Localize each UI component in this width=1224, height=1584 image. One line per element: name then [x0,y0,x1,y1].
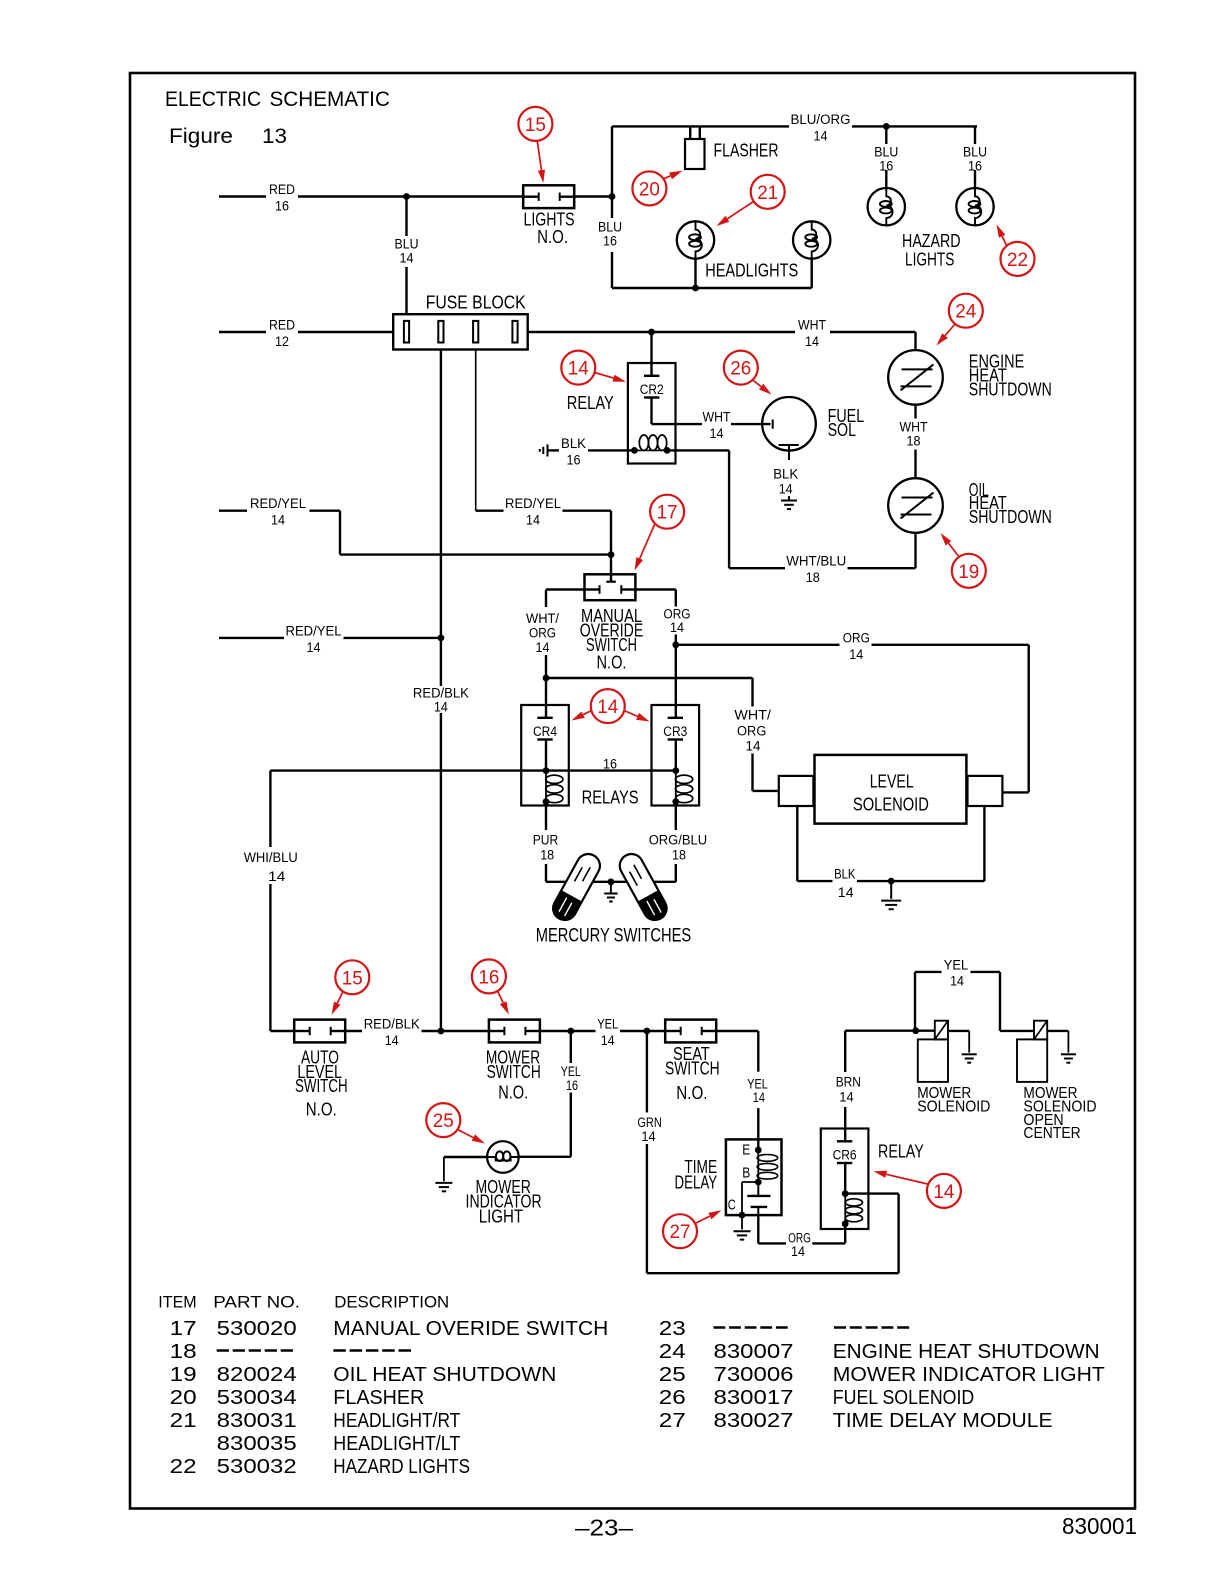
svg-text:BLU: BLU [874,145,898,160]
svg-text:WHT: WHT [703,410,731,425]
svg-text:14: 14 [849,647,863,662]
wire WHT 18 between shutdowns [900,405,928,479]
callout 27 time delay [663,1210,722,1248]
lamp hazard left [868,126,905,225]
callout 16 mower switch [472,959,509,1014]
svg-text:HEADLIGHT/LT: HEADLIGHT/LT [333,1432,460,1455]
svg-text:SWITCH: SWITCH [295,1076,348,1096]
svg-text:20: 20 [639,178,660,200]
svg-text:GRN: GRN [637,1115,662,1130]
svg-text:HEADLIGHTS: HEADLIGHTS [705,261,798,281]
svg-text:RELAY: RELAY [567,393,614,413]
svg-text:RED: RED [269,182,295,197]
switch LIGHTS N.O. [523,185,574,208]
svg-text:N.O.: N.O. [498,1082,528,1102]
svg-text:16: 16 [968,159,982,174]
svg-text:HAZARD LIGHTS: HAZARD LIGHTS [333,1455,470,1478]
wire BLK 16 to CR2 coil [548,436,635,468]
svg-text:15: 15 [342,967,363,989]
node junction CR4 row16 [543,740,550,774]
wire RED 12 row [219,318,393,350]
svg-text:830017: 830017 [714,1386,794,1409]
svg-text:830027: 830027 [714,1409,794,1432]
svg-text:BLU: BLU [598,220,622,235]
svg-text:BLU: BLU [963,145,987,160]
label HEADLIGHTS [705,261,798,281]
svg-text:14: 14 [597,696,618,718]
fuse 4 [512,321,517,343]
svg-text:CR2: CR2 [640,382,664,397]
svg-text:SOLENOID: SOLENOID [917,1099,990,1116]
wire PUR 18 to mercury switch [533,802,559,882]
label MANUAL OVERIDE SWITCH N.O. [580,606,644,673]
table row left 22 [170,1455,470,1478]
svg-text:RED/BLK: RED/BLK [413,686,469,701]
wire CR2 coil to WHT/BLU column [667,450,729,568]
fuse 2 [438,321,443,343]
wire WHT 14 row fuse to engine shutdown [528,318,916,350]
svg-text:FUSE BLOCK: FUSE BLOCK [426,293,526,313]
svg-text:B: B [742,1166,750,1182]
svg-text:16: 16 [603,756,617,771]
wire ORG 14 time delay to CR6 [758,1215,845,1259]
svg-text:22: 22 [170,1455,197,1478]
label HAZARD LIGHTS [902,231,961,270]
svg-text:OIL HEAT SHUTDOWN: OIL HEAT SHUTDOWN [333,1363,556,1386]
svg-text:–23–: –23– [575,1514,633,1540]
table row right 25 [659,1363,1105,1386]
svg-text:BLU/ORG: BLU/ORG [791,112,851,127]
wire RED/BLK 14 between switches [345,1017,489,1049]
wire YEL 14 seat switch to time delay [716,1031,768,1150]
callout 14 relay CR6 [874,1171,961,1208]
ground chassis left of CR2 [540,444,548,456]
capacitor time delay [747,1182,770,1215]
title ELECTRIC SCHEMATIC [165,88,390,111]
wire BLU 14 drop to fuse block [395,197,419,315]
node junction CR2 feed [648,329,655,336]
svg-text:CR4: CR4 [533,724,557,739]
ground level solenoid [881,881,901,909]
svg-text:14: 14 [779,481,793,496]
wire WHT/ORG 14 feed to level solenoid [546,678,779,791]
lamp hazard right [956,126,993,225]
svg-text:830001: 830001 [1062,1513,1137,1539]
coil CR6 [842,1163,863,1227]
svg-text:WHT/BLU: WHT/BLU [786,554,846,569]
engine heat shutdown sender [888,332,943,405]
mower solenoid valve [918,1021,977,1082]
svg-text:21: 21 [170,1409,197,1432]
wire ORG 14 switch to CR3 [635,590,690,719]
label RELAY CR2 [567,393,614,413]
svg-text:SOLENOID: SOLENOID [853,794,929,814]
terminal B [742,1166,761,1186]
svg-text:SWITCH: SWITCH [665,1059,720,1079]
svg-text:YEL: YEL [561,1064,581,1079]
svg-text:17: 17 [657,502,678,524]
label OIL HEAT SHUTDOWN [969,480,1052,527]
svg-text:MERCURY SWITCHES: MERCURY SWITCHES [536,926,692,947]
label MOWER SOLENOID [917,1085,990,1115]
parts table header [158,1293,449,1312]
svg-text:14: 14 [385,1033,399,1048]
coil time delay [757,1150,778,1182]
svg-text:26: 26 [659,1386,686,1409]
svg-text:RELAY: RELAY [878,1142,924,1162]
svg-text:13: 13 [262,124,287,148]
svg-text:26: 26 [730,358,751,380]
svg-text:SWITCH: SWITCH [487,1062,541,1082]
svg-text:14: 14 [536,640,550,655]
wire BLK 14 level solenoid ground rail [797,806,984,900]
callout 17 manual override switch [635,495,685,571]
svg-text:530034: 530034 [217,1386,297,1409]
wire YEL 14 between mower and seat switch [540,1017,665,1049]
svg-text:16: 16 [879,159,893,174]
callout 25 mower indicator light [426,1103,485,1143]
svg-text:FLASHER: FLASHER [333,1386,424,1409]
svg-text:16: 16 [603,234,617,249]
svg-text:14: 14 [753,1090,766,1105]
wire indicator lamp to ground [435,1157,487,1191]
label MOWER INDICATOR LIGHT [466,1177,542,1227]
svg-text:DESCRIPTION: DESCRIPTION [334,1293,449,1312]
wire ORG 14 feed to level solenoid [676,630,1029,792]
table row right 27 [659,1409,1053,1432]
svg-text:16: 16 [567,452,581,467]
svg-text:14: 14 [641,1129,656,1144]
svg-text:MOWER INDICATOR LIGHT: MOWER INDICATOR LIGHT [833,1363,1105,1386]
svg-text:HEADLIGHT/RT: HEADLIGHT/RT [333,1409,460,1432]
table row right 23 [659,1317,913,1340]
table row left 19 [170,1363,557,1386]
callout 19 oil heat shutdown [941,533,986,588]
callout 14 relays CR4 CR3 [572,689,650,723]
svg-text:27: 27 [670,1221,691,1243]
svg-text:20: 20 [170,1386,197,1409]
callout 15 lights switch [518,107,552,183]
svg-text:18: 18 [672,848,686,863]
svg-text:RED/YEL: RED/YEL [505,496,561,511]
node junction RED16/BLU14 [403,193,410,200]
wire headlight bottom rail [612,258,812,291]
mercury switch left [549,850,604,924]
wire BLU 16 down to headlight bottom rail [598,197,622,289]
svg-text:14: 14 [400,251,414,266]
svg-text:22: 22 [1007,249,1028,271]
svg-text:YEL: YEL [944,958,969,973]
svg-text:N.O.: N.O. [537,227,568,247]
table row right 24 [659,1340,1100,1363]
svg-text:14: 14 [933,1181,954,1203]
switch SEAT N.O. [665,1020,716,1043]
svg-text:14: 14 [746,738,761,753]
level solenoid [779,755,1003,824]
svg-text:830007: 830007 [714,1340,794,1363]
svg-text:CR6: CR6 [833,1148,857,1163]
callout 14 relay CR2 [561,351,626,385]
svg-text:SHUTDOWN: SHUTDOWN [969,507,1052,527]
ground mercury switches [604,882,617,902]
label AUTO LEVEL SWITCH N.O. [295,1047,348,1119]
svg-text:TIME DELAY MODULE: TIME DELAY MODULE [833,1409,1053,1432]
wire BLK 14 fuel sol ground [773,467,798,509]
wire WHI/BLU 14 column [244,771,298,1031]
svg-text:RED/YEL: RED/YEL [286,623,342,638]
wire WHT/ORG 14 switch to CR4 [526,590,585,719]
svg-text:PART NO.: PART NO. [213,1293,300,1312]
wire BRN junction to mower solenoid [845,1027,935,1034]
svg-text:E: E [742,1142,750,1158]
svg-text:530032: 530032 [217,1455,297,1478]
node junction hazard branch [883,123,890,130]
wire BLU 16 up to flasher row [611,126,613,196]
svg-text:23: 23 [659,1317,686,1340]
svg-text:BLU: BLU [395,237,419,252]
svg-text:BLK: BLK [561,436,586,451]
switch AUTO LEVEL N.O. [294,1020,345,1043]
label MERCURY SWITCHES [536,926,692,947]
svg-text:730006: 730006 [714,1363,794,1386]
table row left 17 [170,1317,609,1340]
svg-text:N.O.: N.O. [306,1100,337,1120]
coil CR3 [672,771,692,806]
svg-text:Figure: Figure [169,124,233,148]
coil CR2 [631,435,670,454]
switch MOWER N.O. [489,1020,540,1043]
svg-text:WHI/BLU: WHI/BLU [244,850,298,865]
svg-text:18: 18 [907,434,921,449]
label FUSE BLOCK [426,293,526,313]
callout 21 headlights [717,175,785,226]
table row right 26 [659,1386,974,1409]
relay CR6 [821,1129,869,1230]
svg-text:16: 16 [275,199,289,214]
ground time delay C [734,1215,751,1240]
svg-text:N.O.: N.O. [676,1083,707,1103]
svg-text:14: 14 [805,334,819,349]
wire column to RED/YEL feed [475,350,477,511]
svg-text:MANUAL OVERIDE SWITCH: MANUAL OVERIDE SWITCH [333,1317,608,1340]
svg-text:24: 24 [659,1340,686,1363]
fuel solenoid SOL1 [762,397,816,460]
svg-text:830035: 830035 [217,1432,297,1455]
svg-text:LIGHT: LIGHT [479,1207,523,1227]
svg-text:18: 18 [806,570,820,585]
table row left 21 [170,1409,461,1432]
svg-text:12: 12 [275,334,289,349]
label MOWER SOLENOID OPEN CENTER [1023,1085,1096,1142]
svg-text:WHT: WHT [798,318,826,333]
svg-text:N.O.: N.O. [597,653,627,673]
wire BLU/ORG 14 top row [612,112,977,143]
border frame [130,73,1135,1509]
svg-text:CR3: CR3 [663,724,687,739]
svg-text:18: 18 [540,848,554,863]
svg-text:15: 15 [525,114,546,136]
svg-text:ITEM: ITEM [158,1293,196,1312]
relay CR2 [628,332,676,464]
callout 26 fuel solenoid [724,351,772,395]
svg-text:14: 14 [791,1244,805,1259]
svg-text:CENTER: CENTER [1023,1125,1080,1142]
fuse 3 [473,321,478,343]
coil CR4 [543,771,563,806]
wire WHT/BLU 18 row [729,533,915,585]
fuse 1 [404,321,409,343]
svg-text:14: 14 [839,1090,854,1105]
svg-text:17: 17 [170,1317,197,1340]
mercury switch right [616,850,671,924]
table row left 20 [170,1386,425,1409]
svg-text:25: 25 [433,1110,454,1132]
label LIGHTS N.O. [524,209,575,247]
label FLASHER [714,141,779,161]
svg-text:ENGINE HEAT SHUTDOWN: ENGINE HEAT SHUTDOWN [833,1340,1100,1363]
svg-text:RED: RED [269,318,295,333]
label MOWER SWITCH N.O. [486,1047,541,1102]
svg-text:14: 14 [710,426,724,441]
svg-text:820024: 820024 [217,1363,297,1386]
svg-text:RELAYS: RELAYS [582,788,639,808]
svg-text:HAZARD: HAZARD [902,231,961,251]
lamp mower indicator [487,1141,519,1173]
svg-text:25: 25 [659,1363,686,1386]
page number -23- [575,1514,633,1540]
label RELAYS [582,788,639,808]
svg-text:ELECTRIC: ELECTRIC [165,88,261,111]
svg-text:14: 14 [601,1033,615,1048]
svg-text:19: 19 [958,561,979,583]
wire CR2 contact to WHT 14 out [652,398,773,442]
wire YEL 14 loop to open center solenoid [915,958,1034,1031]
label LEVEL SOLENOID [853,772,929,815]
svg-text:14: 14 [950,974,964,989]
svg-text:24: 24 [955,301,976,323]
svg-text:LIGHTS: LIGHTS [905,250,954,270]
svg-text:ORG: ORG [529,626,556,641]
terminal C [728,1182,759,1219]
svg-text:WHT/: WHT/ [526,611,559,626]
label TIME DELAY [675,1157,718,1192]
svg-text:830031: 830031 [217,1409,297,1432]
wire RED/YEL 14 row from fuse [476,496,611,554]
svg-text:PUR: PUR [533,833,559,848]
wire GRN 14 column [637,1031,898,1273]
wire 16 row between relays [270,756,675,771]
svg-text:FUEL SOLENOID: FUEL SOLENOID [833,1386,974,1409]
svg-text:14: 14 [268,869,286,884]
document number 830001 [1062,1513,1137,1539]
table row left 830035 [217,1432,461,1455]
node junction at BLU 16 [609,193,616,200]
svg-text:FLASHER: FLASHER [714,141,779,161]
terminal E [742,1142,761,1158]
svg-text:WHT: WHT [900,420,928,435]
table row left 18 [170,1340,415,1363]
svg-text:16: 16 [478,966,499,988]
wire RED/YEL 14 row lower-left [219,623,444,655]
mower solenoid open center valve [1017,1021,1076,1082]
svg-text:SCHEMATIC: SCHEMATIC [270,88,390,111]
node junction RED/YEL [608,551,615,582]
wire YEL 16 to indicator lamp [518,1031,581,1157]
svg-text:BLK: BLK [773,467,798,482]
svg-text:14: 14 [568,358,589,380]
wire mercury bottom rail [546,878,676,885]
svg-text:14: 14 [670,620,684,635]
svg-text:21: 21 [757,182,778,204]
wire BRN 14 to CR6 [836,1031,861,1142]
svg-text:RED/YEL: RED/YEL [250,496,306,511]
svg-text:14: 14 [271,513,285,528]
svg-text:ORG/BLU: ORG/BLU [649,833,707,848]
oil heat shutdown sender [888,478,943,533]
svg-text:SHUTDOWN: SHUTDOWN [969,379,1052,399]
svg-text:RED/BLK: RED/BLK [364,1017,420,1032]
fuse block [393,314,528,349]
svg-text:14: 14 [838,885,854,900]
node junction CR3 row16 [672,740,679,774]
wire RED 16 row [219,182,523,214]
svg-text:14: 14 [434,700,448,715]
svg-text:C: C [728,1198,736,1214]
wire RED/YEL 14 row upper-left [219,496,611,554]
svg-text:BLK: BLK [834,867,855,882]
lamp headlight right [793,221,830,258]
svg-text:530020: 530020 [217,1317,297,1340]
svg-text:ORG: ORG [843,630,870,645]
label SEAT SWITCH N.O. [665,1044,720,1103]
callout 24 engine heat shutdown [937,294,983,346]
relay CR4 [521,705,569,806]
svg-text:19: 19 [170,1363,197,1386]
lamp headlight left [677,221,714,258]
relay CR3 [652,705,700,806]
title Figure 13 [169,124,287,148]
svg-text:DELAY: DELAY [675,1173,718,1193]
svg-text:BRN: BRN [836,1074,861,1089]
svg-text:WHT/: WHT/ [734,708,771,723]
wire lights switch to flasher junction [575,195,612,197]
label FUEL SOL [828,406,865,440]
svg-text:14: 14 [814,128,828,143]
wire RED/BLK 14 long column [413,350,469,1032]
svg-text:14: 14 [526,513,540,528]
callout 15 auto level switch [332,960,370,1015]
svg-text:LEVEL: LEVEL [870,772,914,792]
svg-text:16: 16 [566,1078,578,1093]
wire ORG/BLU 18 to mercury switch [649,802,707,882]
svg-text:14: 14 [307,640,321,655]
callout 20 flasher [632,171,682,206]
time delay module [726,1139,782,1215]
flasher F1 [685,126,705,169]
label ENGINE HEAT SHUTDOWN [969,352,1052,400]
label RELAY CR6 [878,1142,924,1162]
svg-text:18: 18 [170,1340,197,1363]
svg-text:SOL: SOL [828,420,856,440]
svg-text:YEL: YEL [597,1017,618,1032]
callout 22 hazard lights [997,225,1035,276]
manual override switch [585,574,636,600]
svg-text:ORG: ORG [737,723,766,738]
svg-text:27: 27 [659,1409,686,1432]
